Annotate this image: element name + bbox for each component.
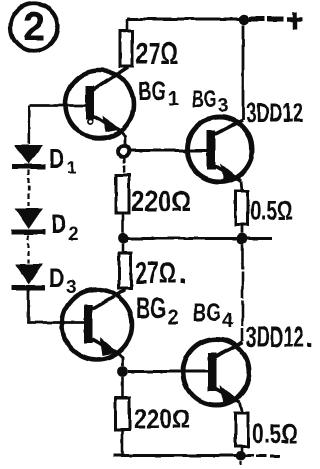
wire R4 to BG2 collector: [123, 288, 126, 291]
wire mid node left down to R4: [121, 244, 124, 253]
node mid rail right: [237, 233, 248, 244]
svg-text:27Ω: 27Ω: [136, 36, 178, 71]
wire node to R5: [121, 377, 124, 398]
wire D3 down and right to BG2 base: [29, 288, 86, 323]
svg-text:2: 2: [69, 224, 79, 244]
wire BG1 base: [29, 104, 86, 107]
svg-text:1: 1: [168, 88, 179, 110]
wire BG2 emitter to node: [117, 353, 123, 367]
resistor R4 body 27 ohm: [119, 253, 131, 288]
wire BG3 collector up to top rail: [242, 25, 245, 120]
svg-text:2: 2: [23, 5, 45, 49]
svg-text:D: D: [51, 209, 67, 239]
diode D3: [11, 264, 45, 288]
wire BG3 emitter down to R3: [242, 181, 243, 191]
svg-text:0.5Ω: 0.5Ω: [252, 418, 298, 449]
top rail wire (+ supply): [127, 18, 244, 21]
svg-text:.: .: [305, 321, 313, 354]
svg-text:D: D: [49, 263, 65, 293]
svg-text:BG: BG: [192, 86, 217, 113]
resistor R1 body: [120, 31, 133, 66]
wire node to BG4 base: [128, 370, 208, 373]
bottom rail dashed continuation: [256, 455, 284, 458]
svg-text:3: 3: [218, 96, 229, 117]
wire stub to + terminal: [249, 17, 283, 22]
label BG4: [193, 299, 234, 332]
diode D1: [12, 145, 45, 167]
resistor R6 body 0.5 ohm: [236, 413, 249, 446]
wire D2 to D3 (dashed hand stroke): [27, 235, 29, 263]
svg-text:1: 1: [67, 158, 77, 178]
bottom rail wire: [114, 454, 254, 457]
wire BG4 emitter down to R6: [240, 402, 243, 413]
wire BG1 emitter to node: [119, 130, 125, 146]
svg-text:3DD12: 3DD12: [246, 321, 304, 354]
transistor BG3: [187, 117, 252, 183]
label D3: [49, 263, 77, 298]
wire down from base corner to D1: [27, 106, 30, 145]
wire from top rail down to R1: [125, 19, 128, 31]
svg-text:3DD12: 3DD12: [246, 97, 303, 128]
label BG3: [192, 86, 229, 117]
svg-text:D: D: [49, 144, 65, 174]
svg-text:BG: BG: [138, 76, 166, 106]
node at top rail junction: [239, 14, 249, 24]
+ terminal symbol: [287, 12, 303, 30]
wire R5 down to bottom rail: [121, 430, 124, 456]
svg-text:2: 2: [167, 306, 179, 329]
svg-text:BG: BG: [136, 293, 166, 325]
svg-text:4: 4: [222, 310, 234, 332]
node below BG1 (BG3 base node): [119, 146, 130, 157]
resistor R2 body 220 ohm: [116, 175, 129, 213]
label BG1: [138, 76, 179, 110]
wire node to R2 (dashes): [123, 156, 126, 175]
wire R6 to bottom rail: [241, 446, 244, 455]
wire R3 to mid rail: [241, 225, 244, 233]
transistor BG1: [66, 67, 134, 139]
wire D1 to D2 (dashed hand stroke): [27, 170, 29, 206]
node bottom rail: [236, 451, 246, 461]
mid rail wire: [123, 237, 272, 240]
svg-text:0.5Ω: 0.5Ω: [250, 196, 293, 226]
figure number badge 2: [11, 4, 58, 51]
node mid rail left: [118, 233, 129, 244]
label BG2: [136, 293, 179, 329]
svg-text:220Ω: 220Ω: [131, 186, 191, 218]
svg-text:220Ω: 220Ω: [134, 404, 190, 434]
resistor R5 body 220 ohm: [116, 398, 130, 430]
transistor BG4: [183, 339, 249, 405]
wire R2 to mid rail node: [121, 213, 124, 233]
wire node to BG3 base: [130, 149, 208, 152]
diode D2: [11, 208, 45, 232]
resistor R3 body 0.5 ohm: [236, 191, 249, 225]
svg-text:BG: BG: [193, 299, 221, 327]
label D1: [49, 144, 77, 179]
label D2: [51, 209, 79, 244]
svg-text:.: .: [178, 255, 187, 290]
node below BG2: [117, 366, 128, 377]
svg-text:27Ω: 27Ω: [135, 255, 176, 290]
transistor BG2: [62, 290, 132, 360]
label 3DD12 (BG4 type): [246, 321, 313, 354]
stub below bottom node: [240, 461, 242, 465]
wire mid node down to BG4 collector: [241, 244, 244, 341]
